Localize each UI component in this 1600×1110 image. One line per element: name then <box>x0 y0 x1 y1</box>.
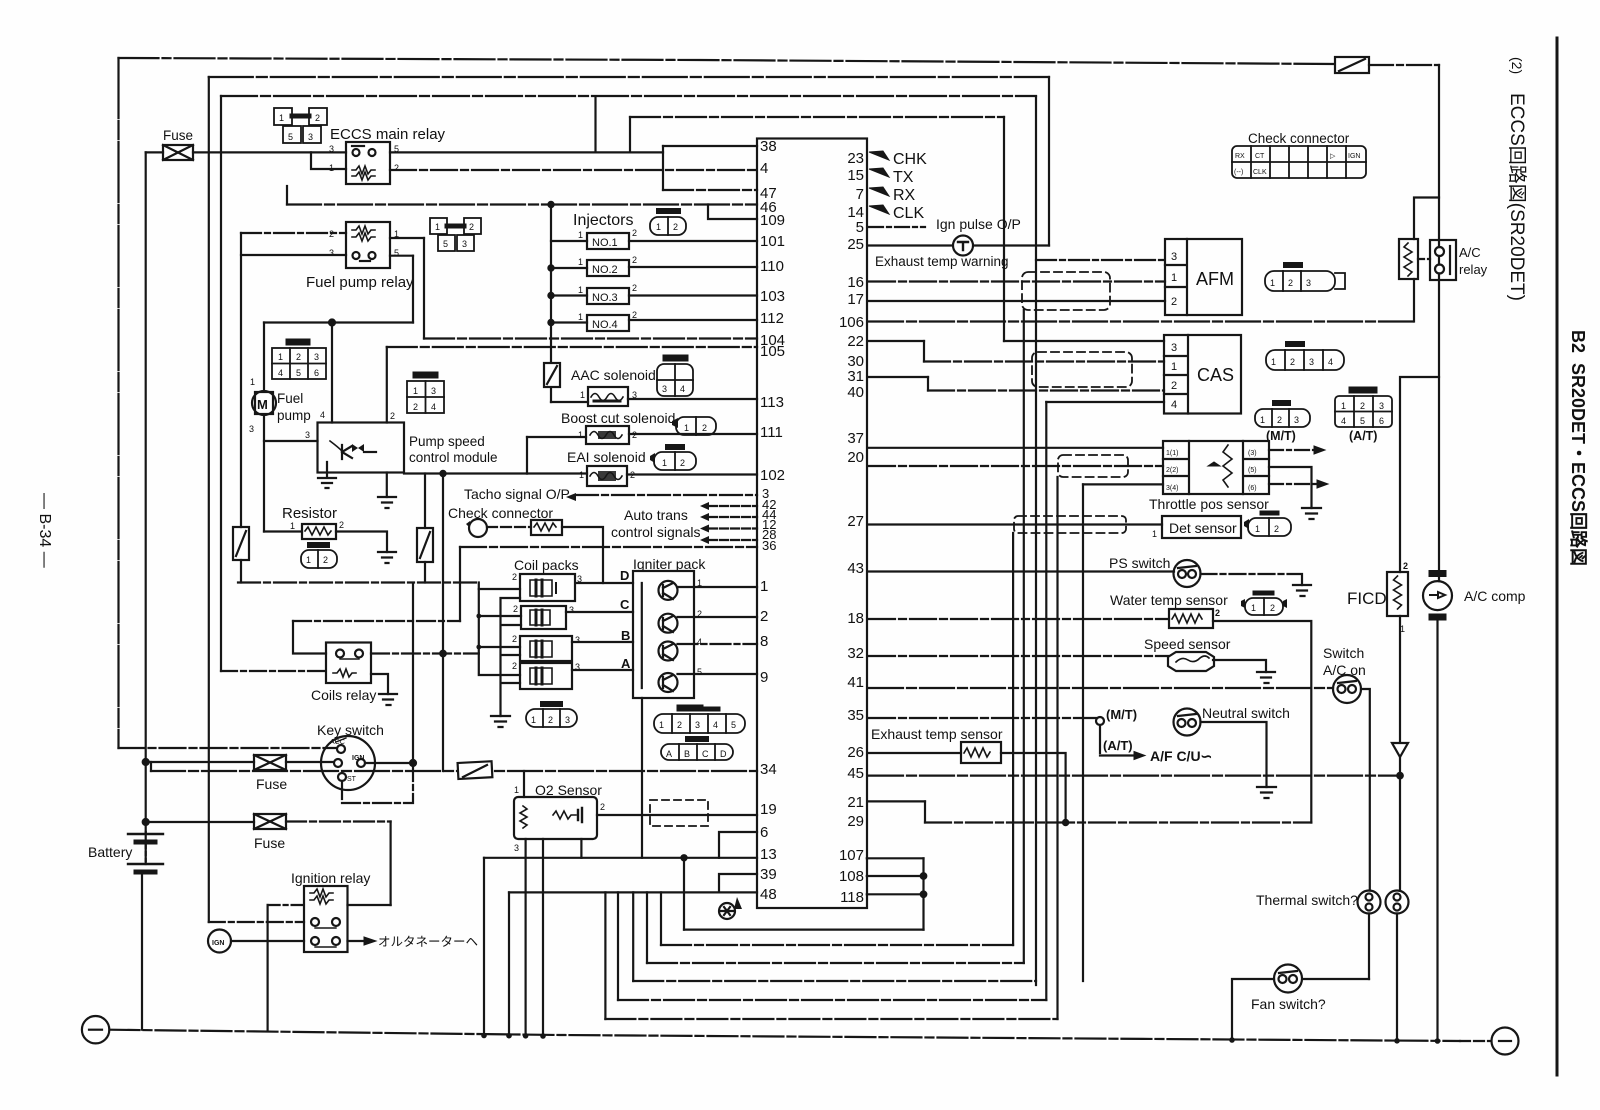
svg-text:Thermal switch?: Thermal switch? <box>1256 892 1358 908</box>
svg-text:5: 5 <box>443 239 448 249</box>
svg-text:ST: ST <box>347 776 357 783</box>
svg-text:Fuse: Fuse <box>163 128 193 143</box>
svg-text:19: 19 <box>760 801 777 818</box>
wire: x425 below <box>424 562 426 583</box>
wire: C line <box>566 611 633 613</box>
svg-text:NO.1: NO.1 <box>592 237 618 249</box>
svg-text:6: 6 <box>760 824 768 841</box>
connector oval 1|2|3|4|5 igniter <box>654 708 745 733</box>
connector icon boost 1|2 <box>672 417 716 435</box>
wire: speed sensor ground <box>1213 660 1266 672</box>
wire: key switch IGN out <box>365 762 413 764</box>
svg-text:41: 41 <box>847 674 864 691</box>
fusible link on 34 line <box>458 761 493 779</box>
svg-text:O2 Sensor: O2 Sensor <box>535 782 602 798</box>
coil pack 4 <box>520 663 572 689</box>
wire: switch AC right drop <box>1361 689 1370 891</box>
wire: branch to PSCM pin3 <box>264 440 318 442</box>
svg-text:Fuse: Fuse <box>254 835 285 851</box>
svg-text:A: A <box>666 749 672 759</box>
wire: IGN circle to relay <box>231 940 304 942</box>
connector icon M/T <box>1255 403 1310 427</box>
wire: resistor left <box>264 530 302 532</box>
wire: pin22 line <box>869 340 924 342</box>
svg-text:1: 1 <box>578 285 583 295</box>
svg-text:1: 1 <box>1251 603 1256 613</box>
node junction <box>329 320 335 326</box>
svg-text:3: 3 <box>314 352 319 362</box>
sensor Throttle pos sensor <box>1163 441 1269 494</box>
svg-text:Pump speed: Pump speed <box>409 434 485 449</box>
diode <box>1392 743 1408 757</box>
wire: rail y1000 <box>618 999 1046 1001</box>
sensor O2 box <box>514 797 597 839</box>
wire: A/C relay coil link <box>1418 258 1430 260</box>
svg-text:113: 113 <box>760 394 784 411</box>
wire: rail y1019 <box>605 1018 1057 1020</box>
svg-text:26: 26 <box>847 744 864 761</box>
svg-text:3: 3 <box>308 132 313 142</box>
svg-text:3: 3 <box>1379 401 1384 411</box>
svg-text:3: 3 <box>1306 278 1311 288</box>
svg-text:— B-34 —: — B-34 — <box>36 493 53 568</box>
svg-text:ACC: ACC <box>330 739 345 746</box>
wire: drop x527 <box>526 437 528 474</box>
coil pack 2 <box>521 606 566 629</box>
wire: ECCS pin2 to ECU pin4 <box>390 169 757 171</box>
svg-text:Check connector: Check connector <box>1248 131 1350 146</box>
node <box>440 651 446 657</box>
battery vertical feed <box>145 832 147 864</box>
svg-text:1: 1 <box>578 230 583 240</box>
svg-text:NO.2: NO.2 <box>592 264 618 276</box>
wire: 4th trunk horizontal y117 <box>630 116 1004 118</box>
svg-text:9: 9 <box>760 669 768 686</box>
svg-text:18: 18 <box>847 610 864 627</box>
svg-text:2: 2 <box>632 255 637 265</box>
svg-text:4: 4 <box>680 384 685 394</box>
connector icon EAI 1|2 <box>650 447 696 470</box>
svg-text:6: 6 <box>314 368 319 378</box>
wire: top line to A/C relay corner <box>1369 64 1439 66</box>
connector 6pin fuel pump <box>272 342 326 379</box>
svg-text:3: 3 <box>1294 415 1299 425</box>
wire: top supply line <box>119 58 1336 64</box>
svg-text:1: 1 <box>290 521 295 531</box>
svg-text:105: 105 <box>760 343 785 360</box>
switch PS switch <box>1174 560 1201 587</box>
svg-text:CLK: CLK <box>893 205 924 222</box>
svg-text:control signals: control signals <box>611 524 701 540</box>
svg-text:RX: RX <box>1235 153 1245 160</box>
svg-text:31: 31 <box>847 368 864 385</box>
wire: AAC to ECU pin113 <box>628 398 757 400</box>
svg-text:2: 2 <box>394 163 399 173</box>
svg-text:1: 1 <box>659 720 664 730</box>
svg-text:39: 39 <box>760 866 777 883</box>
wire: check connector to D line <box>562 527 603 583</box>
wire: O2 second drop <box>542 839 544 1036</box>
svg-text:IGN: IGN <box>212 940 224 947</box>
wire: coils relay right contact to coil bus <box>371 652 479 654</box>
svg-text:45: 45 <box>847 765 864 782</box>
wire: 3rd border vertical <box>220 96 222 671</box>
connector 4pin PSCM <box>407 375 444 413</box>
wire: EAI supply line y473 <box>404 472 527 474</box>
svg-text:5: 5 <box>1360 416 1365 426</box>
connector icon injectors 1|2 <box>650 211 686 235</box>
wire: pin20 to TPS <box>869 465 1163 467</box>
wire: fp relay pin2 <box>241 232 346 234</box>
svg-text:1: 1 <box>279 113 284 123</box>
svg-text:3: 3 <box>662 384 667 394</box>
svg-text:106: 106 <box>839 314 864 331</box>
ground TPS <box>1302 508 1321 519</box>
wire: water temp right drop <box>1213 621 1311 823</box>
svg-text:2: 2 <box>1274 524 1279 534</box>
sensor Det sensor box <box>1162 516 1241 538</box>
igniter transistor 3 <box>659 642 678 661</box>
connector icon CAS 1|2|3|4 <box>1266 344 1344 370</box>
wire: arrow into TPS resistor <box>1208 462 1220 466</box>
wire: 2nd border horizontal <box>209 76 1049 78</box>
node fuse3 junction <box>143 819 149 825</box>
wire: TPS ground drop <box>1082 484 1084 981</box>
relay Fuel pump relay <box>346 222 390 268</box>
wire: EAI to ECU pin102 <box>627 473 757 475</box>
svg-text:111: 111 <box>760 424 783 441</box>
wire: TPS (5) to ground <box>1269 467 1312 508</box>
svg-text:2: 2 <box>413 402 418 412</box>
wire: riser x630 <box>629 117 631 152</box>
resistor check connector <box>531 520 562 535</box>
svg-text:6: 6 <box>1379 416 1384 426</box>
wire: diode to thermal right <box>1399 757 1401 891</box>
svg-text:2: 2 <box>1290 357 1295 367</box>
node <box>1397 773 1403 779</box>
wire: O2 drain riser <box>580 839 582 858</box>
svg-text:Exhaust temp warning: Exhaust temp warning <box>875 254 1009 269</box>
wire: branch NO.4 <box>551 321 587 323</box>
wire: fan switch left drop <box>1232 979 1274 1041</box>
injector NO.2 <box>587 260 629 276</box>
wire: rail y963 <box>647 962 1024 964</box>
svg-text:ECCS main relay: ECCS main relay <box>330 126 446 143</box>
wire: ECCS pin5 to junction <box>390 151 663 153</box>
svg-text:2: 2 <box>339 520 344 530</box>
svg-text:23: 23 <box>847 150 864 167</box>
sensor exhaust temp <box>961 742 1001 763</box>
svg-text:2: 2 <box>632 228 637 238</box>
wire: pin35 to neutral <box>869 717 1097 719</box>
wire: branch NO.3 <box>551 294 587 296</box>
relay A/C relay coil <box>1399 239 1418 279</box>
wire: pin29 line y822.5 <box>925 821 1311 823</box>
coil pack 1 <box>520 574 575 601</box>
svg-text:2: 2 <box>1215 608 1220 618</box>
svg-text:(M/T): (M/T) <box>1266 429 1296 443</box>
svg-text:A/F C/U∽: A/F C/U∽ <box>1150 748 1212 764</box>
terminal minus circle bottom right <box>1460 1028 1519 1055</box>
svg-text:110: 110 <box>760 258 784 275</box>
wire: CLK arrow <box>869 205 889 214</box>
wire: stub 31/40 <box>927 377 929 391</box>
svg-text:32: 32 <box>847 645 864 662</box>
svg-text:Throttle pos sensor: Throttle pos sensor <box>1149 496 1269 512</box>
wire: pin36 line <box>460 546 757 548</box>
wire: 3rd border horizontal <box>221 95 1036 97</box>
wire: coils relay coil right ground <box>371 674 388 694</box>
node <box>410 760 416 766</box>
svg-text:13: 13 <box>760 846 777 863</box>
coil EAI solenoid <box>587 466 627 486</box>
wire: relay to alternator arrow <box>348 937 377 945</box>
connector icon 1|2 resistor <box>301 545 337 568</box>
switch A/C on <box>1333 675 1361 703</box>
node bus dots <box>481 1033 546 1039</box>
svg-text:21: 21 <box>847 794 864 811</box>
svg-text:4: 4 <box>1171 399 1177 411</box>
wire: stub 21/29 <box>924 801 926 822</box>
svg-text:ECCS回路図(SR20DET): ECCS回路図(SR20DET) <box>1506 93 1528 301</box>
svg-text:7: 7 <box>856 186 864 203</box>
wire: riser from ECCS relay pin5 line <box>594 97 596 153</box>
svg-text:TX: TX <box>893 169 914 186</box>
wire: B line <box>572 641 633 643</box>
connector icon AAC 3|4 <box>657 358 693 396</box>
svg-text:3(4): 3(4) <box>1166 485 1178 492</box>
relay A/C relay contacts <box>1430 240 1456 280</box>
node bus dots right <box>1229 1037 1440 1044</box>
svg-text:2: 2 <box>600 802 605 812</box>
wire: fuel pump top feed <box>263 323 265 392</box>
wire: coils relay left contact feed <box>293 621 326 654</box>
wire: AT branch <box>1099 725 1101 753</box>
svg-text:AFM: AFM <box>1196 269 1234 289</box>
svg-text:1: 1 <box>1260 415 1265 425</box>
wire: below-relay line to ECU pin46 <box>287 203 757 205</box>
wire: V1 between contacts <box>1438 256 1440 265</box>
svg-text:1: 1 <box>656 222 661 232</box>
wire: pump feed y322.5 <box>264 321 413 323</box>
svg-text:1: 1 <box>1255 524 1260 534</box>
svg-text:1(1): 1(1) <box>1166 450 1178 457</box>
wire: pin25 line <box>869 244 1049 246</box>
svg-text:1: 1 <box>760 578 768 595</box>
switch key switch <box>321 736 375 790</box>
svg-text:107: 107 <box>839 847 864 864</box>
svg-text:5: 5 <box>856 219 864 236</box>
svg-text:1: 1 <box>580 390 585 400</box>
switch fan <box>1274 965 1302 993</box>
svg-text:オルタネーターヘ: オルタネーターヘ <box>378 935 478 949</box>
wire: exhaust right drop <box>1001 753 1066 823</box>
svg-text:4: 4 <box>431 402 436 412</box>
wire: pin106 line to A/C relay <box>869 320 1414 322</box>
svg-text:Injectors: Injectors <box>573 212 633 229</box>
node <box>1063 820 1068 825</box>
switch thermal right <box>1386 891 1409 914</box>
svg-text:Boost cut solenoid: Boost cut solenoid <box>561 410 675 426</box>
svg-text:CHK: CHK <box>893 151 927 168</box>
wire: V1 right trunk upper <box>1438 65 1440 247</box>
svg-text:1: 1 <box>514 785 519 795</box>
svg-text:Tacho signal O/P: Tacho signal O/P <box>464 486 570 502</box>
switch thermal left <box>1358 891 1381 914</box>
wire: TPS ground line <box>1083 483 1163 485</box>
wire: drop to PSCM pin4 <box>331 323 333 423</box>
motor fuel pump M <box>252 391 276 415</box>
wire: to ECU pin 47 <box>663 189 757 191</box>
wire: rail drop x633.2 <box>632 892 634 981</box>
wire: outer border left vertical <box>117 58 119 748</box>
wire: fp relay pin5 right <box>390 255 413 257</box>
node <box>548 202 553 207</box>
svg-text:IGN: IGN <box>1348 153 1360 160</box>
injector NO.1 <box>587 233 629 249</box>
ground neutral switch <box>1257 787 1276 798</box>
svg-text:118: 118 <box>840 889 864 906</box>
wire: key switch riser x413 <box>412 583 414 762</box>
connector oval A|B|C|D igniter <box>661 739 733 760</box>
terminal IGN circle <box>208 930 231 953</box>
wire: igniter out 1 <box>678 586 758 588</box>
svg-text:2: 2 <box>680 458 685 468</box>
svg-text:B2 SR20DET・ECCS回路図: B2 SR20DET・ECCS回路図 <box>1568 330 1589 566</box>
svg-text:Coil packs: Coil packs <box>514 557 579 573</box>
fuse F1 <box>146 145 346 160</box>
svg-text:CLK: CLK <box>1253 169 1267 176</box>
wire: trunk vertical x1036 <box>1035 97 1037 986</box>
ECU left pin numbers <box>760 138 785 903</box>
connector icon det 1|2 <box>1244 513 1291 536</box>
fuse F2 <box>146 755 333 770</box>
svg-text:RX: RX <box>893 187 916 204</box>
wire: pin41 line <box>869 687 1333 689</box>
wire: y621 to coils relay riser <box>293 620 460 622</box>
wire: CAS pin4 line <box>1046 401 1164 403</box>
fusible link F/L top right <box>1335 57 1369 73</box>
wire: branch NO.1 <box>551 240 587 242</box>
resistor R (dropping) <box>302 524 336 539</box>
wire: vertical x443 to coils relay/34 line <box>442 474 444 772</box>
wire: rail drop x618 <box>617 892 619 1000</box>
fusible link on x241 <box>233 527 249 560</box>
wire: igniter bottom drop <box>641 698 643 858</box>
shield dashed box det sensor <box>1014 516 1126 533</box>
wire: CAS supply from trunk <box>1004 340 1164 342</box>
svg-text:37: 37 <box>847 430 864 447</box>
terminal minus circle bottom left <box>82 1016 109 1043</box>
svg-text:1: 1 <box>684 423 689 433</box>
svg-text:1: 1 <box>662 458 667 468</box>
connector check grid <box>1232 146 1366 178</box>
ground speed sensor <box>1257 672 1275 683</box>
wire: TPS shield drain <box>1056 477 1058 1019</box>
svg-text:1: 1 <box>1270 278 1275 288</box>
svg-text:2: 2 <box>697 609 702 619</box>
svg-text:3: 3 <box>575 635 580 645</box>
svg-text:2: 2 <box>1403 561 1408 571</box>
resistor FICD <box>1387 572 1408 616</box>
pin labels 3 on coils <box>512 572 582 672</box>
wire: stub x708 pin109 <box>708 205 757 220</box>
svg-text:40: 40 <box>847 384 864 401</box>
svg-text:CT: CT <box>1255 153 1265 160</box>
svg-text:17: 17 <box>847 291 864 308</box>
shield dashed box TPS <box>1058 455 1128 477</box>
svg-text:3: 3 <box>1309 357 1314 367</box>
wire: stub x287 <box>286 186 288 205</box>
connector icon AFM 1|2|3 <box>1265 265 1345 291</box>
igniter transistor 1 <box>659 581 678 600</box>
sensor speed sensor <box>1168 652 1214 671</box>
svg-text:pump: pump <box>277 408 311 423</box>
wire: drop x424 <box>423 238 425 339</box>
wire: A line <box>572 669 633 671</box>
wire: x484 drop to bus <box>483 858 485 1036</box>
wire: pin32 to speed sensor <box>869 655 1168 657</box>
svg-text:1: 1 <box>250 377 255 387</box>
wire: x267.6 drop to bus <box>267 905 269 1031</box>
wire: pin40 to CAS 2 <box>928 389 1164 391</box>
svg-text:Check connector: Check connector <box>448 505 553 521</box>
wire: CHK arrow <box>869 151 889 160</box>
coil AAC solenoid <box>588 387 628 406</box>
svg-text:1: 1 <box>697 578 702 588</box>
node <box>548 293 553 298</box>
svg-text:36: 36 <box>762 538 776 553</box>
svg-text:43: 43 <box>847 560 864 577</box>
injector NO.3 <box>587 288 629 304</box>
wire: thermal right drop <box>1396 914 1398 1042</box>
svg-text:Igniter pack: Igniter pack <box>633 556 706 572</box>
node <box>681 855 686 860</box>
wire: x241 below link <box>240 560 242 583</box>
svg-text:4: 4 <box>697 637 702 647</box>
wire: NO.4 to ECU pin112 <box>629 319 757 321</box>
svg-text:2: 2 <box>513 604 518 614</box>
wire: jog x663 pins38/47 <box>662 146 664 190</box>
wire: branch NO.2 <box>551 267 587 269</box>
wire: pin13 line <box>484 857 757 859</box>
wire: fp relay pin3 <box>241 254 346 256</box>
svg-text:Neutral switch: Neutral switch <box>1202 705 1290 721</box>
svg-text:29: 29 <box>847 813 864 830</box>
wire: O2 pin3 down to bus <box>524 839 526 1035</box>
svg-text:103: 103 <box>760 288 785 305</box>
igniter pack box <box>633 571 694 698</box>
svg-text:NO.4: NO.4 <box>592 319 618 331</box>
svg-text:2: 2 <box>1171 296 1177 308</box>
svg-text:4: 4 <box>1341 416 1346 426</box>
wire: pin39 bracket <box>719 874 757 892</box>
svg-text:3: 3 <box>695 720 700 730</box>
wire: pin43 to PS switch <box>869 570 1174 572</box>
connector icon above ECCS relay <box>274 108 327 143</box>
wire: coil bus stubs <box>479 589 521 675</box>
wire: tacho line pin3 with arrow <box>566 493 757 501</box>
relay coils relay <box>326 643 371 684</box>
wire: TX arrow <box>869 168 889 177</box>
wire: pin34 line <box>151 770 757 772</box>
svg-text:(--): (--) <box>1234 169 1243 176</box>
wire: neutral switch to ground <box>1201 722 1267 787</box>
svg-text:1: 1 <box>578 312 583 322</box>
svg-text:1: 1 <box>1152 529 1157 539</box>
wire: pin18 to water temp <box>869 618 1169 620</box>
wire: NO.3 to ECU pin103 <box>629 294 757 296</box>
